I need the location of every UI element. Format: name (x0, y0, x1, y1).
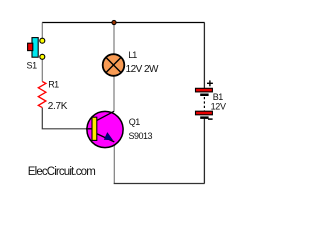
wire bottom horizontal (114, 183, 205, 185)
switch S1 body (32, 38, 38, 58)
battery plus sign (207, 82, 213, 84)
switch S1 terminal bottom (40, 54, 45, 59)
wire left vertical to switch (41, 23, 43, 39)
wire resistor to base corner (42, 108, 87, 129)
battery B1 plate - (cell 1 short) (200, 94, 208, 97)
battery B1 plate + (cell 1 long) (196, 88, 213, 92)
svg-text:B1: B1 (213, 92, 224, 102)
wire right vertical upper (battery +) (203, 23, 205, 89)
wire top horizontal (42, 22, 205, 24)
wire emitter vertical (113, 142, 115, 184)
svg-text:Q1: Q1 (129, 117, 140, 127)
wire switch to resistor (41, 59, 43, 82)
svg-text:S1: S1 (27, 60, 38, 70)
wire lamp branch upper (113, 23, 115, 56)
svg-text:ElecCircuit.com: ElecCircuit.com (28, 166, 95, 178)
battery dashed middle (203, 97, 205, 111)
svg-text:12V 2W: 12V 2W (126, 64, 159, 75)
battery minus sign (208, 118, 213, 120)
svg-text:L1: L1 (128, 50, 137, 60)
transistor Q1 base bar (92, 117, 97, 140)
transistor Q1 emitter line (97, 134, 115, 142)
transistor Q1 collector line (97, 111, 114, 120)
battery B1 plate - (cell 2 short) (200, 116, 208, 119)
lamp L1 (103, 54, 125, 76)
switch S1 button (28, 43, 33, 50)
battery B1 plate + (cell 2 long) (196, 111, 213, 115)
wire right vertical lower (battery -) (203, 118, 205, 183)
wire lamp to collector (113, 76, 115, 112)
svg-text:S9013: S9013 (129, 131, 153, 141)
svg-text:2.7K: 2.7K (48, 101, 68, 112)
transistor Q1 base lead (86, 128, 92, 130)
transistor Q1 emitter arrow (104, 133, 112, 140)
resistor R1 (38, 82, 46, 108)
switch S1 terminal top (40, 38, 45, 43)
svg-text:12V: 12V (211, 102, 226, 112)
transistor Q1 body (87, 111, 123, 147)
junction node dot (112, 20, 116, 24)
svg-text:R1: R1 (48, 79, 59, 89)
